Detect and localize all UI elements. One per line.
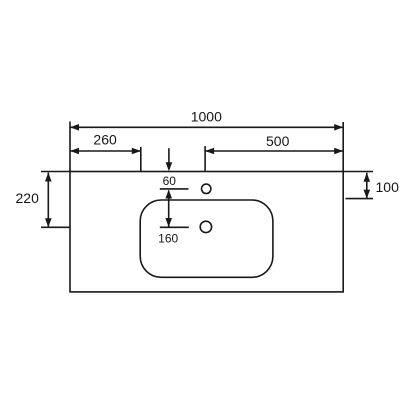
dimension 100 top arrow (364, 173, 371, 182)
small hole (202, 184, 211, 193)
dimension 260 left arrow (70, 148, 79, 155)
top edge extension line right (343, 171, 373, 173)
dimension 100 line (366, 173, 368, 199)
dimension 220 bottom extension line (41, 226, 70, 228)
svg-text:220: 220 (16, 190, 40, 206)
dimension 260 extension tick (140, 147, 142, 172)
dimension 220 bottom arrow (45, 218, 52, 227)
extension line right vertical (342, 122, 344, 172)
dimension 220 top arrow (45, 173, 52, 182)
basin outline (140, 200, 273, 277)
svg-text:1000: 1000 (191, 109, 222, 125)
countertop outline (70, 172, 343, 292)
dimension 260 line (70, 150, 141, 152)
160 reference line (160, 226, 189, 228)
vertical double arrow 60 to 160 (168, 191, 170, 227)
svg-text:100: 100 (376, 179, 400, 195)
dimension 100 bottom extension line (346, 198, 374, 200)
dimension 500 left arrow (205, 148, 214, 155)
dimension 1000 line (70, 126, 343, 128)
reference down arrow to top edge (168, 148, 170, 169)
dimension 220 line (47, 173, 49, 228)
top edge extension line left (41, 171, 70, 173)
dimension 500 extension tick (204, 146, 206, 172)
dimension 1000 right arrow (334, 124, 343, 131)
extension line left vertical (69, 122, 71, 172)
dimension 260 right arrow (132, 148, 141, 155)
svg-text:500: 500 (266, 133, 290, 149)
svg-text:60: 60 (163, 174, 177, 188)
60 reference line (160, 188, 189, 190)
dimension 500 right arrow (334, 148, 343, 155)
dimension 100 bottom arrow (364, 190, 371, 199)
svg-text:160: 160 (158, 231, 178, 245)
large hole (200, 221, 211, 232)
svg-text:260: 260 (93, 131, 117, 147)
dimension 500 line (205, 150, 343, 152)
dimension 1000 left arrow (70, 124, 79, 131)
